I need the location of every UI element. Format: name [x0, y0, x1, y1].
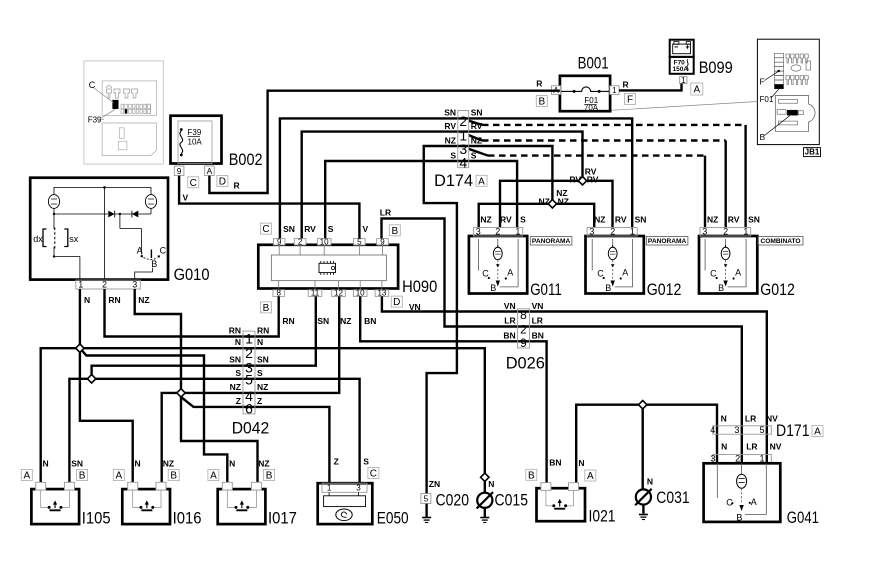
I105 pin A square [36, 482, 46, 490]
svg-text:RV: RV [615, 215, 627, 225]
svg-text:R: R [234, 180, 240, 190]
connector letter C [261, 223, 272, 234]
G011 pin strip 3 2 1 [473, 228, 522, 237]
wire Z junction3 to E050-1 via D042-6 [181, 397, 329, 483]
svg-text:NZ: NZ [138, 295, 149, 305]
B099 pin 1 [680, 77, 687, 84]
svg-text:Z: Z [257, 396, 262, 406]
svg-text:A: A [115, 471, 122, 482]
wire RN G010-2 to D042-1 to H090-8 [105, 289, 279, 337]
svg-text:RN: RN [108, 295, 120, 305]
svg-text:PANORAMA: PANORAMA [532, 238, 571, 245]
lamp G012 (COMBINATO) [699, 236, 757, 294]
svg-text:R: R [536, 79, 542, 89]
G011 tag PANORAMA [530, 237, 572, 245]
wire SN I105-B to S junction riser [69, 379, 91, 483]
I017 connector letter B [264, 470, 275, 481]
B002 pin A [205, 166, 215, 176]
svg-text:H090: H090 [402, 278, 437, 296]
dashed wire NZ to G012 right pin3 [469, 149, 488, 156]
svg-text:1: 1 [327, 484, 332, 493]
svg-text:V: V [363, 224, 369, 234]
svg-text:ZN: ZN [429, 479, 440, 489]
svg-text:C: C [190, 178, 197, 189]
svg-text:C: C [370, 469, 377, 480]
svg-text:D: D [219, 177, 226, 188]
I016 pin B square [156, 482, 166, 490]
G041 internals [716, 463, 718, 498]
svg-text:N: N [647, 476, 653, 486]
I017 pin A square [222, 482, 232, 490]
ground point C020 [421, 494, 431, 504]
G010 pin strip 1 2 3 [76, 280, 141, 289]
svg-text:RN: RN [257, 325, 269, 335]
svg-text:sx: sx [69, 234, 79, 244]
svg-text:NZ: NZ [230, 382, 241, 392]
svg-text:VN: VN [504, 301, 516, 311]
wire NZ junction3 to D042-4 to H090-12 [181, 296, 339, 393]
svg-text:C: C [482, 269, 489, 279]
svg-text:2: 2 [735, 453, 740, 463]
I105 pin B square [64, 482, 74, 490]
svg-text:LR: LR [532, 316, 543, 326]
svg-text:I021: I021 [589, 508, 616, 526]
wire NZ junction to G012 middle pin3 [552, 204, 594, 228]
node NZ junction [548, 200, 556, 208]
svg-text:A: A [693, 85, 700, 96]
G012 tag COMBINATO [758, 237, 803, 245]
E050 pin strip 1 3 [322, 483, 367, 492]
svg-text:8: 8 [520, 308, 527, 322]
svg-text:RV: RV [728, 215, 740, 225]
B099 fuse F70 150A [670, 57, 694, 74]
JB1 tag [804, 148, 821, 157]
svg-text:RN: RN [282, 316, 294, 326]
svg-text:SN: SN [283, 224, 295, 234]
svg-text:B099: B099 [699, 59, 733, 77]
svg-text:3: 3 [589, 226, 594, 236]
H090 top pins 9 2 10 5 9 [273, 239, 285, 245]
svg-text:G012: G012 [647, 281, 682, 299]
svg-text:N: N [135, 459, 141, 469]
IC chip symbol [319, 263, 336, 272]
pump E050 [318, 483, 373, 524]
connector letter B (bottom left) [261, 302, 272, 313]
svg-text:JB1: JB1 [805, 148, 820, 157]
svg-text:SN: SN [257, 355, 269, 365]
svg-text:I105: I105 [82, 509, 111, 527]
svg-text:3: 3 [702, 226, 707, 236]
svg-text:8: 8 [276, 289, 281, 298]
wire N I021-A to D171-4 with C031 junction [576, 405, 717, 483]
wire N G010-1 down to junction [79, 289, 81, 348]
svg-text:NZ: NZ [707, 215, 718, 225]
connector letter D [217, 176, 228, 187]
wire N junction diagonal to I017-A [80, 348, 227, 482]
svg-text:1: 1 [759, 453, 764, 463]
dashed wire SN to G012 right pin1 [469, 121, 482, 125]
svg-text:G041: G041 [787, 509, 819, 527]
svg-text:LR: LR [746, 441, 757, 451]
connector letter C [188, 177, 199, 188]
svg-text:S: S [257, 368, 263, 378]
G010 lamp right [150, 187, 152, 195]
wire RV junction to G011 pin2 [500, 181, 583, 228]
svg-text:N: N [721, 413, 727, 423]
fuse-box locator inset (top left) [84, 61, 163, 164]
wire BN H090-10 to D026-9 to I021-B [360, 296, 546, 482]
fusebox locator JB1 [757, 39, 819, 144]
I016 connector letter B [168, 470, 179, 481]
svg-text:B: B [605, 283, 611, 293]
svg-text:N: N [84, 295, 90, 305]
wire N junction down to I016-A [80, 348, 133, 482]
svg-text:A: A [735, 268, 741, 278]
svg-text:LR: LR [504, 316, 515, 326]
svg-text:5: 5 [424, 494, 429, 504]
leader line B001 to JB1 [612, 102, 758, 111]
svg-text:1: 1 [78, 280, 83, 290]
I016 connector letter A [113, 470, 124, 481]
svg-text:NZ: NZ [471, 136, 482, 146]
svg-text:S: S [520, 215, 526, 225]
wire S D174-4 to G011 pin1 [469, 161, 517, 228]
svg-text:150A: 150A [673, 66, 689, 73]
node S junction [87, 375, 95, 383]
I021 pin B square [541, 483, 551, 491]
svg-text:SN: SN [317, 316, 329, 326]
svg-text:9: 9 [520, 336, 527, 350]
svg-text:1: 1 [612, 86, 617, 95]
svg-text:3: 3 [476, 226, 481, 236]
svg-text:A: A [137, 245, 143, 255]
svg-text:5: 5 [245, 372, 253, 388]
B002 pin 9 [174, 166, 184, 176]
svg-text:NZ: NZ [258, 459, 269, 469]
G010 lamp left [53, 187, 55, 195]
svg-text:D171: D171 [776, 422, 810, 440]
svg-text:S: S [471, 151, 477, 161]
svg-text:A: A [622, 268, 628, 278]
svg-text:N: N [257, 337, 263, 347]
wire N junction to C031 [642, 405, 644, 490]
I016 pin A square [128, 482, 138, 490]
svg-text:A: A [210, 471, 217, 482]
svg-text:2: 2 [520, 322, 527, 336]
svg-text:NZ: NZ [445, 136, 456, 146]
svg-text:NZ: NZ [538, 197, 549, 207]
svg-text:11: 11 [311, 289, 320, 298]
svg-text:A: A [814, 427, 821, 438]
I021 connector letter B [526, 469, 537, 480]
svg-text:B: B [528, 470, 535, 481]
svg-text:3: 3 [710, 453, 715, 463]
svg-text:G010: G010 [174, 266, 210, 284]
fusebox B002 [171, 116, 222, 164]
connector strip D042 [243, 331, 255, 414]
wire RV junction to G012 middle pin2 [583, 181, 613, 228]
svg-text:1: 1 [743, 226, 748, 236]
B001 pin A [551, 86, 560, 95]
node NZ junction 3 [177, 389, 185, 397]
node N junction at C031 [639, 401, 647, 409]
connector letter F [625, 94, 636, 105]
svg-text:B: B [79, 471, 86, 482]
svg-text:NZ: NZ [558, 197, 569, 207]
node RV junction [578, 177, 586, 185]
svg-text:9: 9 [177, 166, 182, 176]
svg-text:B: B [263, 303, 270, 314]
svg-text:N: N [43, 459, 49, 469]
svg-text:SN: SN [229, 355, 241, 365]
wire S D174-4 to H090-10 [325, 161, 469, 239]
svg-text:1: 1 [515, 226, 520, 236]
G012 pin strip 3 2 1 [587, 228, 637, 237]
svg-text:10: 10 [320, 237, 329, 246]
svg-text:SN: SN [471, 108, 483, 118]
svg-text:N: N [488, 479, 494, 489]
svg-text:BN: BN [532, 330, 544, 340]
E050 internals [324, 496, 366, 507]
wire NZ junction3 down to I017-B [181, 393, 258, 483]
svg-text:A: A [507, 268, 513, 278]
svg-text:S: S [235, 368, 241, 378]
svg-text:RV: RV [569, 174, 581, 184]
G010 centre feed to pin 2 [104, 187, 106, 214]
svg-text:1: 1 [630, 226, 635, 236]
wire N junction to D042-2 to C015 [80, 348, 485, 477]
svg-text:I016: I016 [173, 509, 202, 527]
wire NZ junction3 to I016-B [162, 393, 181, 483]
svg-text:2: 2 [610, 226, 615, 236]
locator black tick [125, 109, 127, 113]
svg-text:S: S [450, 151, 456, 161]
G010 B feed to pin 3 [152, 268, 154, 272]
svg-text:F01: F01 [760, 95, 774, 104]
svg-text:S: S [328, 224, 334, 234]
svg-text:N: N [235, 337, 241, 347]
svg-text:RV: RV [471, 121, 483, 131]
svg-text:RV: RV [444, 121, 456, 131]
svg-text:RV: RV [587, 174, 599, 184]
wire R B002-A to B001-A [209, 91, 560, 193]
svg-text:C020: C020 [436, 492, 470, 510]
svg-text:COMBINATO: COMBINATO [760, 238, 800, 245]
connector strip D171 row B (3 2 1) / G041 pins [713, 455, 772, 463]
G010 diode row [53, 208, 55, 214]
svg-text:NZ: NZ [594, 215, 605, 225]
locator fuse F39 (filled) [113, 100, 119, 109]
G010 left feed to pin 1 [53, 214, 55, 229]
control unit H090 [258, 245, 398, 289]
svg-text:NZ: NZ [163, 459, 174, 469]
I017 pin B square [251, 482, 261, 490]
wire RV D174-1 to RV junction [469, 132, 583, 181]
G012 pin strip 3 2 1 [700, 228, 751, 237]
svg-text:E050: E050 [377, 509, 409, 527]
svg-text:V: V [183, 193, 189, 203]
fuse F39 10A symbol [180, 128, 183, 131]
svg-text:4: 4 [459, 155, 467, 171]
lamp G041 [704, 463, 781, 522]
wire V B002-9 to H090-5 [179, 176, 359, 239]
switch I017 [218, 489, 266, 524]
wire N junction to I105-A [41, 348, 80, 482]
svg-text:BN: BN [549, 457, 561, 467]
switch I021 [537, 488, 586, 521]
wire NZ junction to G011 pin3 [479, 204, 553, 228]
I017 connector letter A [208, 470, 219, 481]
G012 tag PANORAMA [646, 237, 688, 245]
svg-text:G011: G011 [530, 281, 562, 299]
lamp G011 (PANORAMA) [469, 236, 527, 294]
svg-text:2: 2 [298, 237, 303, 246]
svg-text:C: C [160, 245, 167, 255]
svg-text:A: A [587, 471, 594, 482]
svg-text:A: A [751, 497, 757, 507]
wire NZ D174-3 to C020 [424, 146, 469, 494]
wire SN junction riser to D042-3 to H090-11 [92, 296, 316, 378]
svg-text:F39: F39 [88, 115, 102, 124]
connector letter C [368, 468, 379, 479]
connector strip D171 row A (4 3 5) [713, 426, 772, 434]
JB1 fuse F01 (filled) [775, 85, 784, 89]
svg-text:D026: D026 [506, 354, 545, 372]
svg-text:R: R [623, 79, 629, 89]
svg-text:10A: 10A [188, 138, 203, 147]
connector letter D (bottom right) [391, 296, 402, 307]
svg-text:3: 3 [132, 280, 137, 290]
wire S junction to D042-5 to E050-3 [92, 379, 360, 483]
svg-text:B: B [760, 132, 766, 142]
svg-text:NZ: NZ [340, 316, 351, 326]
wire SN D174-2 to H090-9 [280, 118, 469, 238]
svg-text:VN: VN [532, 301, 544, 311]
I105 connector letter B [77, 470, 88, 481]
wire VN H090-13 to D026-8 to D171-5 [382, 296, 767, 463]
svg-text:N: N [229, 459, 235, 469]
svg-text:C031: C031 [656, 489, 689, 507]
svg-text:70A: 70A [584, 104, 599, 113]
svg-text:B001: B001 [578, 54, 609, 72]
svg-text:10: 10 [356, 289, 365, 298]
connector letter A [812, 426, 823, 437]
svg-text:D: D [393, 297, 400, 308]
svg-text:B: B [151, 259, 157, 269]
I021 pin A square [569, 483, 579, 491]
svg-text:9: 9 [380, 237, 385, 246]
svg-text:SN: SN [71, 459, 83, 469]
svg-text:C: C [262, 224, 269, 235]
wire NZ G010-3 to NZ junction 3 [135, 289, 181, 393]
svg-text:5: 5 [759, 425, 764, 435]
JB1 connector B cavity (filled) [787, 110, 797, 115]
switch I105 [31, 489, 79, 524]
svg-text:C: C [597, 269, 604, 279]
svg-text:S: S [363, 457, 369, 467]
svg-text:D042: D042 [232, 420, 270, 438]
svg-text:B: B [266, 471, 273, 482]
svg-text:F: F [627, 95, 633, 106]
svg-text:PANORAMA: PANORAMA [648, 238, 687, 245]
svg-text:A: A [207, 166, 213, 176]
svg-text:F: F [760, 76, 765, 86]
svg-text:LR: LR [745, 413, 756, 423]
wire LR H090-9 to D026-2 to D171-3 [382, 219, 742, 464]
G010 dx/sx switch [43, 229, 47, 247]
B001 pin 1 [610, 86, 619, 95]
switch unit G010 [30, 178, 168, 280]
svg-text:B: B [718, 283, 724, 293]
wire SN D174-2 to G012 middle pin1 [469, 118, 633, 227]
svg-text:B: B [170, 471, 177, 482]
svg-text:C: C [710, 269, 717, 279]
svg-text:SN: SN [635, 215, 647, 225]
svg-text:NZ: NZ [480, 215, 491, 225]
G010 internals: top bus [54, 186, 151, 188]
svg-text:3: 3 [356, 484, 361, 493]
switch I016 [122, 489, 170, 524]
wire R B001-1 to B099-1 [619, 84, 682, 91]
svg-text:B: B [538, 97, 545, 108]
svg-text:N: N [578, 458, 584, 468]
svg-text:A: A [23, 471, 30, 482]
wire RV D174-1 to H090-2 [302, 132, 469, 239]
node N junction [76, 344, 84, 352]
svg-text:BN: BN [364, 316, 376, 326]
svg-text:12: 12 [334, 289, 343, 298]
svg-text:NV: NV [770, 441, 782, 451]
I105 connector letter A [21, 470, 32, 481]
svg-text:Z: Z [236, 396, 241, 406]
svg-text:RV: RV [304, 224, 316, 234]
svg-text:2: 2 [723, 226, 728, 236]
fuse F01 70A symbol [560, 90, 574, 92]
H090 bottom pins 8 11 12 10 13 [273, 290, 285, 297]
svg-text:A: A [478, 176, 485, 187]
G010 A-contact feed [119, 214, 121, 229]
lamp G012 (PANORAMA) [586, 236, 644, 294]
connector letter B [536, 96, 547, 107]
svg-text:5: 5 [357, 237, 362, 246]
connector letter A [691, 83, 703, 95]
I021 connector letter A [585, 470, 596, 481]
svg-text:6: 6 [245, 400, 253, 416]
ground point C015 [484, 477, 486, 492]
svg-text:I017: I017 [268, 509, 297, 527]
connector letter B (top right) [389, 225, 400, 236]
svg-text:B: B [490, 283, 496, 293]
svg-text:SN: SN [748, 215, 760, 225]
svg-text:D174: D174 [434, 172, 473, 190]
svg-text:3: 3 [734, 425, 739, 435]
svg-text:G012: G012 [760, 281, 795, 299]
svg-text:C015: C015 [495, 492, 529, 510]
battery B099 [670, 40, 694, 57]
svg-text:2: 2 [102, 280, 107, 290]
svg-text:13: 13 [377, 289, 386, 298]
svg-text:N: N [721, 441, 727, 451]
connector letter A [476, 175, 487, 186]
svg-text:NV: NV [766, 413, 778, 423]
svg-text:NZ: NZ [257, 382, 268, 392]
svg-text:Z: Z [334, 457, 339, 467]
connector strip D026 [518, 309, 530, 348]
svg-text:B: B [736, 512, 742, 522]
fusebox B001 [560, 76, 610, 111]
svg-text:B002: B002 [229, 151, 263, 169]
connector strip D174 [458, 111, 469, 168]
